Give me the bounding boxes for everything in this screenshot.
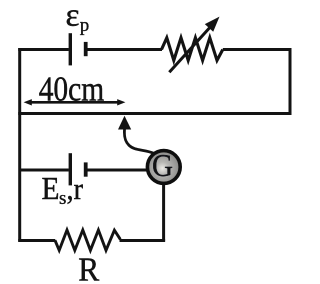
40cm arrow right head [117,99,125,105]
wire: left vertical [18,48,21,242]
svg-text:R: R [78,252,99,284]
resistor R zigzag body [55,230,120,250]
wire: potentiometer slide wire [18,112,291,115]
40cm dimension arrow shaft [28,101,120,104]
jockey arrow head [118,116,131,130]
wire: bottom right segment [120,239,166,242]
wire: battery EP to rheostat [87,48,162,51]
rheostat arrow head [205,17,220,32]
svg-text:G: G [152,147,173,183]
svg-text:40cm: 40cm [39,69,105,108]
jockey curved arrow tail [124,129,153,154]
svg-text:p: p [80,15,90,36]
wire: rheostat to top-right corner [223,48,292,51]
battery EP long plate (+) [69,33,72,65]
svg-text:ε: ε [66,0,80,33]
40cm arrow left head [24,99,32,105]
svg-text:,r: ,r [67,172,84,206]
wire: galvanometer bottom vertical [162,184,165,242]
wire: right vertical [289,48,292,115]
rheostat zigzag body [162,38,223,61]
battery ES long plate (+) [69,153,72,185]
svg-text:s: s [59,188,66,209]
rheostat arrow shaft [169,27,210,73]
wire: bottom left segment [18,239,55,242]
wire: battery ES to galvanometer [87,169,148,172]
battery ES short plate (-) [84,162,88,176]
galvanometer G body [147,151,180,184]
wire: left vertical to battery ES [20,169,69,172]
svg-text:E: E [42,171,60,206]
wire: top-left lead to battery EP [18,48,69,51]
battery EP short plate (-) [84,42,88,56]
